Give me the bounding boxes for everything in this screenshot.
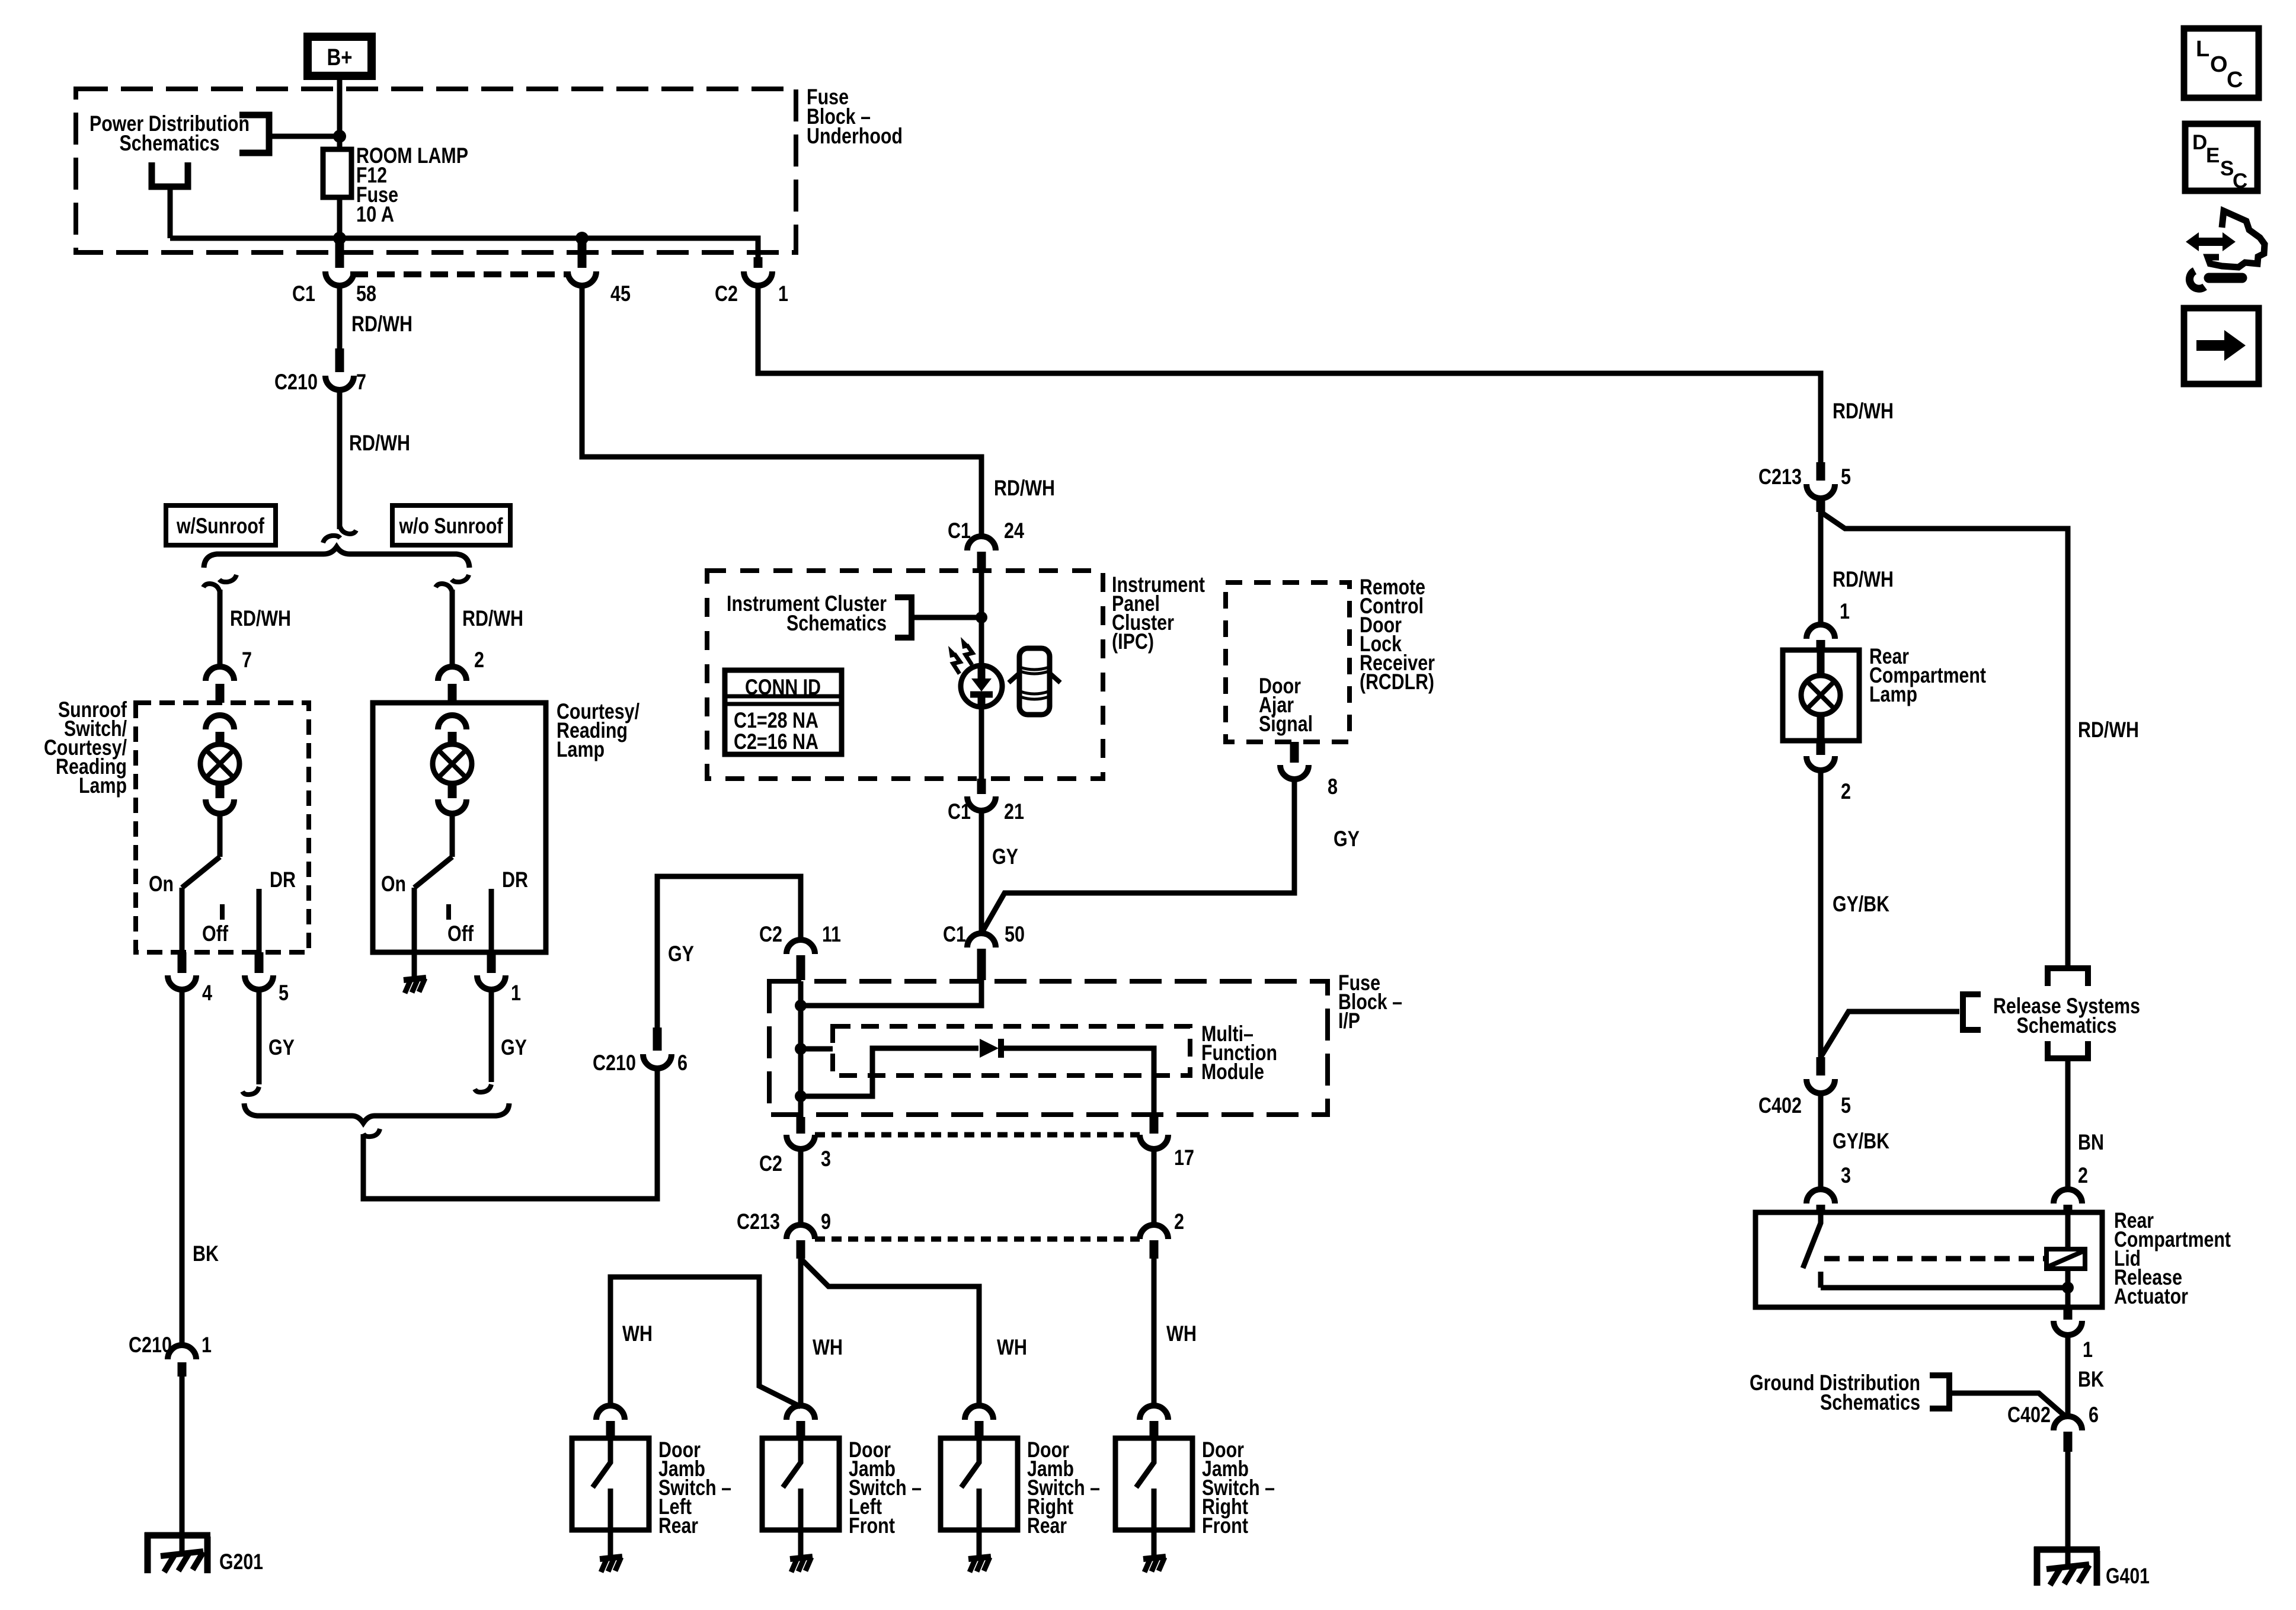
Rear Compartment Lamp box bbox=[1783, 650, 1859, 741]
reference stub to Power Distribution Schematics (open-top bracket) bbox=[152, 162, 188, 187]
svg-text:(RCDLR): (RCDLR) bbox=[1360, 670, 1434, 694]
switch DR contact wire bbox=[489, 889, 494, 952]
car icon top view bbox=[1009, 648, 1060, 715]
connector C213 pin 9 bbox=[737, 1209, 831, 1259]
label Fuse Block - I/P bbox=[1338, 971, 1402, 1033]
svg-text:17: 17 bbox=[1174, 1145, 1194, 1170]
svg-text:C2: C2 bbox=[715, 281, 738, 306]
svg-text:2: 2 bbox=[1841, 779, 1851, 804]
connector door jamb switch left front bbox=[786, 1406, 815, 1438]
svg-text:4: 4 bbox=[202, 981, 212, 1005]
reference half-box bottom Release Systems bbox=[2048, 1041, 2088, 1058]
connector pin 2 courtesy lamp bbox=[438, 648, 484, 703]
chassis ground left rear switch bbox=[600, 1557, 622, 1572]
wire node to C1-50 bbox=[801, 980, 981, 1006]
svg-text:7: 7 bbox=[242, 648, 252, 672]
wire switch to node bbox=[1821, 1285, 2068, 1291]
wire C1-58 to C210-7 RD/WH bbox=[337, 286, 343, 348]
label Instrument Cluster Schematics bbox=[727, 591, 887, 635]
wire C2-1 long run to C213-5 bbox=[758, 286, 1821, 462]
svg-text:C2=16 NA: C2=16 NA bbox=[734, 729, 818, 754]
svg-text:2: 2 bbox=[2078, 1163, 2088, 1188]
svg-text:WH: WH bbox=[622, 1321, 653, 1346]
svg-text:2: 2 bbox=[1174, 1209, 1184, 1234]
connector C210 pin 1 bbox=[129, 1333, 212, 1377]
connector C210 pin 7 bbox=[274, 348, 366, 394]
svg-text:1: 1 bbox=[511, 981, 521, 1005]
junction node to C1-50 bbox=[795, 1000, 807, 1012]
svg-text:Module: Module bbox=[1201, 1060, 1264, 1084]
wire C2-3 to C213-9 bbox=[798, 1149, 804, 1225]
Remote Control Door Lock Receiver dashed box bbox=[1226, 582, 1350, 742]
svg-text:C402: C402 bbox=[1758, 1093, 1802, 1118]
switch DR contact wire bbox=[257, 889, 262, 952]
svg-text:O: O bbox=[2210, 52, 2228, 77]
svg-text:11: 11 bbox=[822, 922, 841, 946]
svg-text:WH: WH bbox=[813, 1335, 843, 1359]
wire diode to pin 17 bbox=[999, 1048, 1154, 1118]
svg-text:58: 58 bbox=[356, 281, 376, 306]
svg-text:S: S bbox=[2220, 157, 2234, 180]
svg-text:Schematics: Schematics bbox=[120, 131, 220, 155]
wire break symbol at split bbox=[323, 525, 356, 543]
svg-text:GY/BK: GY/BK bbox=[1833, 892, 1889, 916]
merge brace GY wires bbox=[244, 1103, 509, 1123]
svg-text:RD/WH: RD/WH bbox=[349, 431, 410, 455]
svg-text:21: 21 bbox=[1004, 799, 1024, 824]
svg-text:C1: C1 bbox=[292, 281, 315, 306]
svg-text:Rear: Rear bbox=[658, 1513, 698, 1538]
switch On contact wire bbox=[180, 888, 185, 952]
svg-text:I/P: I/P bbox=[1338, 1009, 1360, 1033]
Fuse Block - I/P dashed box bbox=[769, 981, 1328, 1115]
wire pin2 to solenoid bbox=[2065, 1212, 2071, 1249]
connector C2 pin 3 bbox=[759, 1117, 831, 1176]
bus wire inside fuse block bbox=[170, 238, 758, 257]
label Multi-Function Module bbox=[1201, 1022, 1277, 1084]
connector pin 1 actuator bbox=[2054, 1307, 2093, 1362]
chassis ground right front switch bbox=[1143, 1557, 1166, 1572]
connector row dotted line C1 bbox=[350, 271, 568, 277]
sunroof lamp top terminal bbox=[206, 715, 234, 745]
svg-text:RD/WH: RD/WH bbox=[1833, 567, 1894, 591]
Off contact tick bbox=[220, 904, 225, 920]
svg-text:Actuator: Actuator bbox=[2114, 1284, 2188, 1308]
Instrument Panel Cluster dashed box bbox=[707, 571, 1103, 779]
svg-text:GY: GY bbox=[668, 942, 694, 966]
svg-text:On: On bbox=[381, 872, 406, 896]
svg-text:RD/WH: RD/WH bbox=[351, 312, 412, 336]
door jamb switch left front bbox=[762, 1438, 839, 1556]
svg-text:Lamp: Lamp bbox=[557, 737, 605, 761]
connector C402 pin 5 bbox=[1758, 1057, 1851, 1118]
wire break start left branch bbox=[203, 575, 236, 593]
svg-text:GY: GY bbox=[501, 1035, 527, 1060]
wire bracket to fuse node bbox=[269, 134, 340, 139]
svg-text:2: 2 bbox=[474, 648, 484, 672]
svg-text:C1: C1 bbox=[948, 799, 971, 824]
switch On contact wire to ground bbox=[412, 888, 417, 978]
svg-text:C210: C210 bbox=[274, 370, 318, 394]
connector door jamb switch right rear bbox=[965, 1406, 993, 1438]
svg-text:G201: G201 bbox=[219, 1550, 263, 1574]
svg-text:RD/WH: RD/WH bbox=[994, 476, 1055, 500]
svg-text:C: C bbox=[2227, 68, 2243, 92]
svg-text:3: 3 bbox=[1841, 1163, 1851, 1188]
label Door Jamb Switch - Left Rear bbox=[658, 1438, 731, 1538]
connector C2 pin 1 bbox=[715, 257, 788, 306]
svg-text:C210: C210 bbox=[593, 1051, 636, 1075]
svg-text:On: On bbox=[149, 872, 174, 896]
svg-text:WH: WH bbox=[997, 1335, 1027, 1359]
courtesy lamp top terminal bbox=[438, 715, 466, 745]
label Door Ajar Signal bbox=[1259, 674, 1313, 736]
connector C210 pin 6 bbox=[593, 1028, 687, 1075]
LOC icon box bbox=[2184, 28, 2259, 98]
svg-text:w/o Sunroof: w/o Sunroof bbox=[399, 514, 503, 538]
Off contact tick bbox=[446, 904, 451, 920]
wire break end pin1 bbox=[475, 1084, 491, 1092]
wire branch to release systems bracket bbox=[1821, 1012, 1959, 1057]
Sunroof Switch/Courtesy/Reading Lamp dashed box bbox=[136, 703, 309, 952]
svg-text:RD/WH: RD/WH bbox=[2078, 718, 2139, 742]
svg-text:G401: G401 bbox=[2106, 1564, 2150, 1588]
connector pin 2 rear lamp bbox=[1806, 741, 1851, 804]
svg-text:Rear: Rear bbox=[1027, 1513, 1067, 1538]
label Instrument Panel Cluster (IPC) bbox=[1112, 572, 1205, 654]
next page arrow icon box bbox=[2184, 308, 2259, 384]
wire pin2 GY/BK to C402-5 bbox=[1818, 770, 1824, 1057]
wire pin5 GY down bbox=[257, 990, 262, 1084]
junction node IPC bbox=[976, 612, 987, 623]
svg-text:RD/WH: RD/WH bbox=[1833, 399, 1894, 423]
B+ battery terminal box bbox=[308, 37, 372, 76]
wire node to pin 1 bbox=[2065, 1288, 2071, 1307]
svg-text:Schematics: Schematics bbox=[2017, 1013, 2117, 1038]
chassis ground right rear switch bbox=[968, 1557, 991, 1572]
label Rear Compartment Lamp bbox=[1869, 644, 1986, 706]
door jamb switch right rear bbox=[941, 1438, 1018, 1556]
connector C1 pin 24 bbox=[948, 518, 1024, 570]
svg-text:C402: C402 bbox=[2007, 1403, 2051, 1427]
CONN ID table bbox=[725, 670, 842, 754]
svg-text:5: 5 bbox=[1841, 1093, 1851, 1118]
wire B+ to fuse F12 bbox=[337, 76, 343, 152]
svg-text:Front: Front bbox=[849, 1513, 895, 1538]
wire lamp to switch bbox=[450, 814, 455, 857]
svg-text:3: 3 bbox=[821, 1147, 831, 1171]
svg-text:C213: C213 bbox=[737, 1209, 780, 1234]
schematic fragment icon with double arrow bbox=[2186, 211, 2265, 267]
wire solenoid to node bbox=[2065, 1269, 2071, 1288]
svg-text:Schematics: Schematics bbox=[786, 611, 887, 635]
svg-text:6: 6 bbox=[677, 1051, 687, 1075]
connector door jamb switch left rear bbox=[596, 1406, 625, 1438]
svg-text:Lamp: Lamp bbox=[79, 773, 127, 798]
label Ground Distribution Schematics bbox=[1750, 1371, 1920, 1414]
wire C402-5 GY/BK to pin 3 bbox=[1818, 1093, 1824, 1189]
connector C1 pin 58 bbox=[292, 241, 376, 306]
svg-text:1: 1 bbox=[202, 1333, 212, 1357]
courtesy/reading lamp bbox=[433, 744, 472, 783]
reference bracket Instrument Cluster Schematics bbox=[895, 597, 912, 638]
connector pin 1 courtesy lamp bbox=[477, 952, 521, 1005]
svg-text:50: 50 bbox=[1005, 922, 1025, 946]
svg-text:RD/WH: RD/WH bbox=[230, 606, 291, 630]
junction node above fuse bbox=[333, 130, 346, 143]
wire node to MFM edge bbox=[801, 1046, 833, 1052]
wire bracket to LED node bbox=[912, 615, 981, 620]
wire C210-7 down RD/WH bbox=[337, 390, 343, 529]
wire pin17 to C213-2 bbox=[1152, 1149, 1157, 1225]
wire w/Sunroof branch RD/WH bbox=[218, 590, 223, 668]
svg-text:GY: GY bbox=[268, 1035, 295, 1060]
svg-text:CONN ID: CONN ID bbox=[745, 675, 821, 699]
svg-text:C2: C2 bbox=[759, 922, 782, 946]
wire C213-9 to left front switch WH bbox=[798, 1259, 804, 1407]
svg-text:C1=28 NA: C1=28 NA bbox=[734, 708, 818, 732]
wire fuse to bus bbox=[337, 136, 343, 238]
sunroof lamp bottom terminal bbox=[206, 783, 234, 814]
svg-text:(IPC): (IPC) bbox=[1112, 629, 1154, 654]
connector C213 pin 2 bbox=[1140, 1209, 1184, 1259]
wrench icon bbox=[2189, 271, 2242, 289]
svg-text:GY: GY bbox=[992, 844, 1018, 869]
connector pin 1 rear lamp bbox=[1806, 599, 1850, 650]
sunroof courtesy/reading lamp bbox=[200, 744, 239, 783]
svg-text:BK: BK bbox=[2078, 1367, 2104, 1391]
svg-text:GY/BK: GY/BK bbox=[1833, 1129, 1889, 1153]
connector pin 5 bbox=[245, 952, 289, 1005]
svg-text:w/Sunroof: w/Sunroof bbox=[176, 514, 264, 538]
svg-text:D: D bbox=[2192, 131, 2207, 154]
svg-text:C213: C213 bbox=[1758, 465, 1802, 489]
connector pin 7 sunroof lamp bbox=[206, 648, 252, 703]
wire C402-6 to G401 bbox=[2065, 1452, 2071, 1567]
rear compartment lamp bulb bbox=[1801, 650, 1840, 741]
svg-text:1: 1 bbox=[2083, 1337, 2093, 1362]
wire C210-6 up to C2-11 GY bbox=[657, 876, 801, 1028]
wire release systems to actuator pin 2 BN bbox=[2065, 1058, 2071, 1189]
wire break below merge brace bbox=[363, 1129, 380, 1137]
reference bracket Ground Distribution Schematics bbox=[1930, 1375, 1949, 1409]
option box w/o Sunroof bbox=[392, 505, 510, 545]
connector door jamb switch right front bbox=[1140, 1406, 1168, 1438]
Fuse Block - Underhood dashed box bbox=[76, 89, 796, 252]
svg-text:C210: C210 bbox=[129, 1333, 172, 1357]
wire break end pin5 bbox=[242, 1087, 259, 1094]
connector row dotted line C213 bbox=[815, 1237, 1140, 1242]
wire C213-5 branch to release systems RD/WH bbox=[1821, 512, 2068, 968]
label Door Jamb Switch - Left Front bbox=[849, 1438, 922, 1538]
wire merge to C210-6 GY bbox=[363, 1068, 657, 1199]
wire pin1 GY down bbox=[489, 990, 494, 1082]
svg-text:BK: BK bbox=[193, 1241, 219, 1266]
wire bracket to C402-6 bbox=[1949, 1393, 2067, 1417]
reference bracket Release Systems Schematics bbox=[1963, 994, 1981, 1030]
connector pin 2 actuator bbox=[2054, 1189, 2082, 1212]
DESC icon box bbox=[2185, 124, 2257, 193]
wire pin4 to C210-1 BK bbox=[180, 990, 185, 1346]
svg-text:C1: C1 bbox=[943, 922, 966, 946]
svg-text:1: 1 bbox=[778, 281, 788, 306]
label Remote Control Door Lock Receiver (RCDLR) bbox=[1360, 575, 1435, 694]
junction node bus at fuse bbox=[333, 232, 346, 245]
svg-text:C2: C2 bbox=[759, 1151, 782, 1176]
LED photon arrows bbox=[948, 637, 973, 674]
wire LED to C1-21 bbox=[979, 707, 984, 779]
wire pin45 to C1-24 bbox=[582, 286, 981, 535]
svg-text:L: L bbox=[2196, 37, 2209, 62]
connector pin 3 actuator bbox=[1806, 1189, 1835, 1212]
fuse F12 ROOM LAMP 10 A bbox=[323, 149, 351, 197]
svg-text:5: 5 bbox=[279, 981, 289, 1005]
wire node under MFM to diode bbox=[801, 1048, 978, 1096]
reference bracket Power Distribution Schematics bbox=[239, 115, 269, 153]
svg-text:6: 6 bbox=[2089, 1403, 2099, 1427]
wire break start w/o sunroof branch bbox=[436, 575, 469, 593]
label Rear Compartment Lid Release Actuator bbox=[2114, 1208, 2231, 1308]
chassis ground courtesy lamp bbox=[404, 978, 426, 993]
svg-text:B+: B+ bbox=[327, 44, 353, 71]
connector pin 4 bbox=[168, 952, 212, 1005]
connector C1 pin 21 bbox=[948, 779, 1024, 824]
connector C1 pin 50 bbox=[943, 922, 1025, 980]
svg-text:BN: BN bbox=[2078, 1130, 2104, 1154]
svg-text:RD/WH: RD/WH bbox=[462, 606, 523, 630]
Courtesy/Reading Lamp box bbox=[373, 703, 546, 952]
reference half-box top Release Systems bbox=[2048, 968, 2088, 986]
label Courtesy/Reading Lamp bbox=[557, 699, 639, 761]
svg-text:WH: WH bbox=[1166, 1321, 1197, 1346]
label Door Jamb Switch - Right Front bbox=[1202, 1438, 1275, 1538]
junction node to MFM input bbox=[795, 1043, 807, 1055]
svg-text:1: 1 bbox=[1840, 599, 1850, 623]
junction node bus at pin 45 bbox=[575, 232, 589, 245]
courtesy lamp bottom terminal bbox=[438, 783, 466, 814]
wire C210-1 to G201 bbox=[180, 1377, 185, 1553]
connector C213 pin 5 bbox=[1758, 462, 1851, 512]
switch blade sunroof lamp bbox=[182, 857, 220, 888]
wire pin8 GY to C1-50 bbox=[981, 779, 1294, 933]
switch blade courtesy lamp bbox=[414, 857, 452, 888]
junction node to diode path bbox=[795, 1090, 807, 1102]
connector pin 8 RCDLR bbox=[1280, 742, 1338, 799]
wire left rear switch branch WH bbox=[610, 1277, 801, 1407]
wire C213-9 branch to right rear switch WH bbox=[801, 1259, 979, 1407]
svg-text:DR: DR bbox=[502, 868, 528, 892]
svg-text:E: E bbox=[2206, 144, 2220, 167]
svg-text:Front: Front bbox=[1202, 1513, 1248, 1538]
option box w/Sunroof bbox=[166, 505, 276, 545]
svg-text:5: 5 bbox=[1841, 465, 1851, 489]
diode MFM bbox=[980, 1039, 1001, 1058]
wire pin1 BK to C402-6 bbox=[2065, 1335, 2071, 1417]
actuator switch bbox=[1803, 1212, 1821, 1288]
junction node actuator bbox=[2062, 1282, 2074, 1294]
connector pin 45 bbox=[568, 241, 631, 306]
svg-text:Lamp: Lamp bbox=[1869, 682, 1917, 706]
wire C1-21 to C1-50 GY bbox=[979, 811, 984, 933]
connector row dotted line C2 bbox=[815, 1132, 1140, 1138]
wire bracket stub down to bus bbox=[168, 187, 173, 238]
svg-text:Signal: Signal bbox=[1259, 712, 1313, 736]
wire C2-11 internal vertical bbox=[798, 981, 804, 1118]
label Door Jamb Switch - Right Rear bbox=[1027, 1438, 1100, 1538]
svg-text:7: 7 bbox=[356, 370, 366, 394]
svg-text:C: C bbox=[2233, 169, 2247, 193]
svg-text:C1: C1 bbox=[948, 518, 971, 543]
wire w/o Sunroof branch RD/WH bbox=[450, 590, 455, 668]
connector C402 pin 6 bbox=[2007, 1403, 2099, 1452]
svg-text:Off: Off bbox=[202, 921, 229, 946]
svg-text:10 A: 10 A bbox=[356, 202, 394, 226]
ground G201 bbox=[145, 1532, 263, 1574]
wire IPC internal down through LED bbox=[979, 571, 984, 665]
svg-text:45: 45 bbox=[610, 281, 631, 306]
label Sunroof Switch/Courtesy/Reading Lamp bbox=[44, 697, 127, 798]
svg-text:Off: Off bbox=[447, 921, 474, 946]
LED indicator (circle diode) bbox=[961, 665, 1002, 707]
door jamb switch left rear bbox=[572, 1438, 649, 1556]
chassis ground left front switch bbox=[790, 1557, 813, 1572]
Multi-Function Module dashed box bbox=[833, 1026, 1190, 1076]
svg-text:DR: DR bbox=[270, 868, 296, 892]
connector C2 pin 11 bbox=[759, 922, 841, 980]
svg-text:9: 9 bbox=[821, 1209, 831, 1234]
wire C213-5 to rear lamp RD/WH bbox=[1818, 512, 1824, 626]
door jamb switch right front bbox=[1115, 1438, 1192, 1556]
wire C213-2 to right front switch WH bbox=[1152, 1259, 1157, 1407]
Rear Compartment Lid Release Actuator box bbox=[1755, 1212, 2102, 1307]
svg-text:Underhood: Underhood bbox=[807, 124, 903, 148]
actuator linkage dashed bbox=[1824, 1256, 2046, 1262]
actuator solenoid bbox=[2046, 1249, 2085, 1269]
connector pin 17 bbox=[1140, 1117, 1194, 1170]
svg-text:24: 24 bbox=[1004, 518, 1024, 543]
label Release Systems Schematics bbox=[1993, 994, 2140, 1038]
svg-text:8: 8 bbox=[1328, 774, 1338, 799]
wire lamp to switch bbox=[218, 814, 223, 857]
ground G401 bbox=[2034, 1547, 2150, 1588]
svg-text:GY: GY bbox=[1334, 827, 1360, 851]
svg-text:Schematics: Schematics bbox=[1820, 1390, 1920, 1414]
split brace bbox=[204, 547, 469, 568]
